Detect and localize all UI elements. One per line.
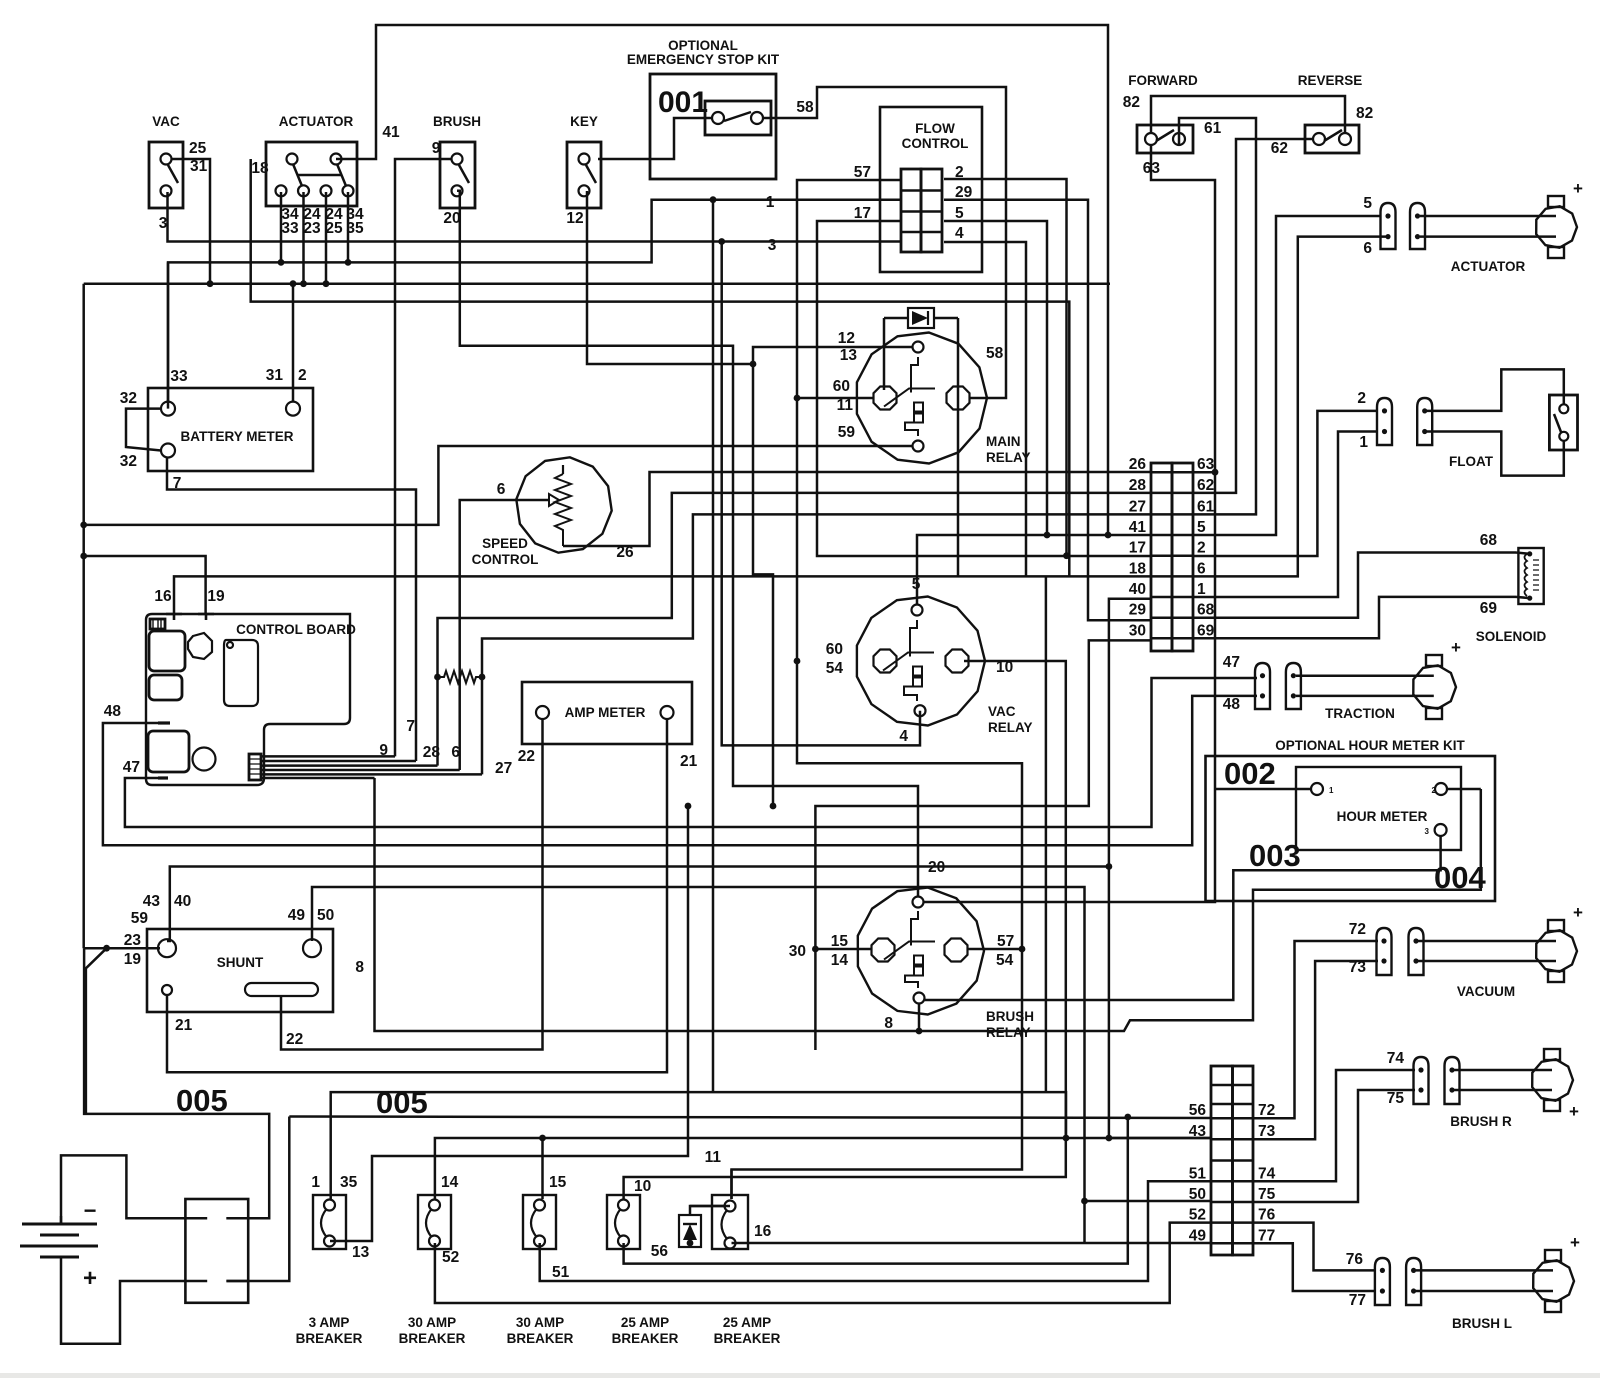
svg-text:2: 2 xyxy=(1197,540,1206,557)
wire battery positive loop xyxy=(61,1258,185,1344)
battery plate short 2 xyxy=(40,1256,79,1259)
svg-text:3 AMP: 3 AMP xyxy=(309,1315,350,1330)
float pin B contact xyxy=(1422,408,1427,413)
actuator pin A contact xyxy=(1385,213,1390,218)
actuator motor xyxy=(1536,206,1577,247)
wire 15-14 brush relay west xyxy=(815,948,872,951)
brush L pin A contact xyxy=(1380,1268,1385,1273)
svg-text:1: 1 xyxy=(1197,581,1206,598)
wire 7 battery meter to ribbon xyxy=(167,457,416,761)
svg-text:20: 20 xyxy=(443,210,460,227)
svg-text:63: 63 xyxy=(1143,160,1161,177)
hour meter kit outer box xyxy=(1206,756,1496,901)
svg-text:FLOAT: FLOAT xyxy=(1449,454,1494,469)
svg-text:69: 69 xyxy=(1480,600,1498,617)
svg-text:57: 57 xyxy=(997,933,1014,950)
wire 41 row west to VAC relay pin 5 xyxy=(917,535,1151,605)
traction motor tabs xyxy=(1426,655,1442,666)
brush relay bottom terminal xyxy=(914,993,925,1004)
switch KEY pin top xyxy=(579,154,590,165)
float switch body xyxy=(1549,395,1577,450)
svg-text:77: 77 xyxy=(1349,1292,1366,1309)
svg-text:VAC: VAC xyxy=(988,704,1016,719)
switch FORWARD pin right xyxy=(1173,133,1185,145)
svg-text:57: 57 xyxy=(854,164,871,181)
main relay diode xyxy=(908,308,934,328)
svg-text:63: 63 xyxy=(1197,456,1215,473)
svg-text:ACTUATOR: ACTUATOR xyxy=(1451,259,1526,274)
svg-text:6: 6 xyxy=(451,744,460,761)
svg-text:25: 25 xyxy=(189,140,207,157)
svg-text:73: 73 xyxy=(1258,1123,1276,1140)
svg-text:47: 47 xyxy=(1223,654,1240,671)
svg-text:+: + xyxy=(1570,1233,1580,1252)
wire 48 control board to traction xyxy=(103,696,1257,845)
svg-text:19: 19 xyxy=(207,588,225,605)
svg-text:82: 82 xyxy=(1123,94,1140,111)
svg-text:RELAY: RELAY xyxy=(988,720,1033,735)
svg-text:10: 10 xyxy=(996,659,1013,676)
ribbon line 4 xyxy=(261,769,460,772)
wire 62 reverse to connector xyxy=(1193,139,1313,493)
svg-text:ACTUATOR: ACTUATOR xyxy=(279,114,354,129)
svg-text:1: 1 xyxy=(1329,786,1334,795)
wire 13 breaker to coil bus xyxy=(330,806,688,1241)
connector J1 cell line 6 xyxy=(1151,575,1193,578)
switch ACTUATOR body xyxy=(266,142,357,206)
svg-text:11: 11 xyxy=(705,1149,722,1166)
svg-text:35: 35 xyxy=(346,220,364,237)
control board cap 3 xyxy=(148,731,189,772)
svg-text:15: 15 xyxy=(549,1174,567,1191)
junction 005 row43 xyxy=(1106,1135,1113,1142)
svg-text:76: 76 xyxy=(1346,1251,1364,1268)
svg-text:52: 52 xyxy=(1189,1207,1206,1224)
emergency stop pin left xyxy=(712,112,724,124)
svg-text:73: 73 xyxy=(1349,959,1367,976)
switch KEY lever xyxy=(586,165,596,183)
svg-text:1: 1 xyxy=(766,194,775,211)
svg-text:+: + xyxy=(1569,1102,1579,1121)
resistor speed limit xyxy=(438,671,483,683)
wire 8 brush relay to ribbon and hour meter xyxy=(375,778,1481,1031)
svg-text:51: 51 xyxy=(552,1264,570,1281)
wire 41 top run from actuator to connector row 41 xyxy=(336,25,1108,535)
breaker 30A-1 element xyxy=(426,1209,432,1237)
svg-text:EMERGENCY STOP KIT: EMERGENCY STOP KIT xyxy=(627,52,780,67)
wire 8 brush relay drop xyxy=(918,1003,921,1031)
svg-text:+: + xyxy=(83,1265,97,1292)
junction flow5 row41 xyxy=(1044,532,1051,539)
wire 4 flow control east xyxy=(944,242,1026,576)
brush R pin B xyxy=(1445,1057,1460,1104)
svg-text:40: 40 xyxy=(1129,581,1146,598)
connector J1 cell line 7 xyxy=(1151,596,1193,599)
wire battery negative fuse right xyxy=(84,948,269,1218)
speed control bottom lead xyxy=(563,545,566,548)
switch FORWARD body xyxy=(1137,125,1193,153)
wire 11 breaker 25A xyxy=(730,1170,733,1200)
wire row 73 to vacuum xyxy=(1253,961,1378,1139)
junction 40-43 shunt xyxy=(1106,863,1113,870)
wire key to emergency stop xyxy=(598,118,712,159)
breaker 25A-2 top terminal xyxy=(725,1201,736,1212)
svg-text:12: 12 xyxy=(566,210,583,227)
traction motor wire 1 xyxy=(1296,674,1434,677)
actuator pin B contact xyxy=(1415,213,1420,218)
control board chip slot xyxy=(150,619,165,629)
junction 63 row xyxy=(1212,469,1219,476)
shunt body xyxy=(147,929,333,1012)
amp meter body xyxy=(522,682,692,744)
wire row 50 stub xyxy=(1085,1200,1212,1203)
wire 5 flow control east xyxy=(944,221,1047,535)
svg-text:8: 8 xyxy=(355,959,364,976)
vacuum pin A xyxy=(1377,928,1392,975)
junction pin2 bus xyxy=(300,280,307,287)
solenoid body xyxy=(1518,548,1543,604)
svg-text:BREAKER: BREAKER xyxy=(714,1331,781,1346)
battery plate long 1 xyxy=(22,1223,97,1226)
diode top lead xyxy=(690,1206,726,1215)
svg-text:RELAY: RELAY xyxy=(986,450,1031,465)
svg-text:58: 58 xyxy=(986,345,1004,362)
wire bus 283 from left rail xyxy=(84,282,1110,285)
control board pin 16 xyxy=(166,614,182,620)
connector J2 cell line 8 xyxy=(1211,1221,1253,1224)
junction 13 xyxy=(750,361,757,368)
svg-text:60: 60 xyxy=(833,378,850,395)
brush L motor xyxy=(1533,1260,1574,1301)
svg-text:30: 30 xyxy=(1129,622,1146,639)
control board ribbon hatch xyxy=(249,759,261,774)
wire 58 emergency stop to main relay xyxy=(763,87,1006,398)
svg-text:25 AMP: 25 AMP xyxy=(621,1315,669,1330)
connector J2 cell line 9 xyxy=(1211,1242,1253,1245)
solenoid terminals xyxy=(1527,551,1532,556)
wire 9 brush switch to ribbon xyxy=(395,159,451,756)
wire 82 forward to reverse xyxy=(1151,96,1345,133)
switch BRUSH body xyxy=(440,142,475,208)
svg-text:30 AMP: 30 AMP xyxy=(516,1315,564,1330)
wire 12-13 key switch to main relay xyxy=(587,191,912,364)
switch ACTUATOR lever bar xyxy=(298,174,342,177)
emergency stop pin right xyxy=(751,112,763,124)
svg-text:MAIN: MAIN xyxy=(986,434,1021,449)
svg-text:BREAKER: BREAKER xyxy=(507,1331,574,1346)
vac relay left terminal xyxy=(874,650,897,673)
diode bottom lead xyxy=(689,1243,692,1247)
svg-text:REVERSE: REVERSE xyxy=(1298,73,1363,88)
wire 3 VAC switch to flow control xyxy=(168,192,901,242)
junction diode 49 xyxy=(687,1240,694,1247)
float pin A contact xyxy=(1382,408,1387,413)
svg-text:2: 2 xyxy=(298,367,307,384)
wire row 2 to float xyxy=(1193,411,1378,556)
switch BRUSH lever xyxy=(459,165,469,183)
svg-text:−: − xyxy=(84,1198,97,1223)
svg-text:RELAY: RELAY xyxy=(986,1025,1031,1040)
vac relay right terminal xyxy=(946,650,969,673)
wire actuator pin4 down xyxy=(347,192,350,262)
actuator motor wire 1 xyxy=(1420,215,1556,218)
svg-text:12: 12 xyxy=(838,330,855,347)
connector J1 left column xyxy=(1151,463,1172,651)
svg-text:5: 5 xyxy=(912,576,921,593)
wire 59 main relay to left rail xyxy=(84,446,912,525)
breaker 3A top lead xyxy=(329,1198,332,1201)
svg-text:27: 27 xyxy=(1129,498,1146,515)
wire battery negative loop xyxy=(61,1155,185,1224)
flow control connector right column xyxy=(921,169,942,252)
svg-text:6: 6 xyxy=(497,481,506,498)
switch REVERSE pin left xyxy=(1313,133,1325,145)
svg-text:14: 14 xyxy=(831,952,849,969)
breaker 30A-2 bottom terminal xyxy=(534,1236,545,1247)
svg-text:5: 5 xyxy=(1363,195,1372,212)
svg-text:62: 62 xyxy=(1197,477,1214,494)
brush L pin A xyxy=(1375,1258,1390,1305)
brush L pin B xyxy=(1406,1258,1421,1305)
svg-text:82: 82 xyxy=(1356,105,1373,122)
svg-text:2: 2 xyxy=(955,164,964,181)
svg-text:BRUSH: BRUSH xyxy=(986,1009,1034,1024)
main relay right terminal xyxy=(947,387,970,410)
svg-text:59: 59 xyxy=(131,910,149,927)
battery plate long 2 xyxy=(20,1245,98,1248)
svg-text:1: 1 xyxy=(1359,434,1368,451)
ribbon line 3 xyxy=(261,764,438,767)
svg-text:BRUSH R: BRUSH R xyxy=(1450,1114,1512,1129)
breaker 3A top terminal xyxy=(324,1200,335,1211)
svg-text:41: 41 xyxy=(1129,519,1147,536)
svg-text:43: 43 xyxy=(143,893,161,910)
brush R motor wire 2 xyxy=(1454,1089,1552,1092)
svg-text:001: 001 xyxy=(658,86,708,119)
svg-text:25: 25 xyxy=(325,220,343,237)
svg-text:19: 19 xyxy=(124,951,142,968)
wire battery negative through fuse xyxy=(185,1217,207,1220)
svg-text:75: 75 xyxy=(1258,1186,1276,1203)
switch ACTUATOR lever right xyxy=(337,164,346,186)
hour meter pin 1 xyxy=(1311,783,1323,795)
wire row 52 to breaker xyxy=(435,1223,1211,1303)
vac relay body xyxy=(857,597,985,726)
main relay contacts xyxy=(911,357,918,393)
junction pin1 bus xyxy=(278,259,285,266)
wire hour meter pin2 lead xyxy=(1447,788,1481,791)
svg-text:50: 50 xyxy=(1189,1186,1206,1203)
switch KEY pin 12 xyxy=(579,185,590,196)
svg-text:35: 35 xyxy=(340,1174,358,1191)
svg-text:74: 74 xyxy=(1258,1165,1276,1182)
svg-text:1: 1 xyxy=(311,1174,320,1191)
junction pin3 bus xyxy=(323,280,330,287)
wire 6 speed control to ribbon xyxy=(460,500,549,770)
wire 60-11 main relay xyxy=(797,397,874,400)
wire 56 breaker riser xyxy=(624,1117,1128,1264)
svg-text:49: 49 xyxy=(288,907,306,924)
switch ACTUATOR pin b1 xyxy=(276,185,287,196)
wire row 63 stub xyxy=(1193,471,1215,474)
connector J2 right column xyxy=(1233,1066,1254,1255)
wire 25-31 VAC to bus xyxy=(172,159,210,284)
connector J1 cell line 9 xyxy=(1151,637,1193,640)
svg-text:30: 30 xyxy=(789,943,806,960)
wire row 51 to breaker xyxy=(540,1181,1211,1281)
svg-text:003: 003 xyxy=(1249,838,1301,873)
svg-text:18: 18 xyxy=(1129,560,1147,577)
wire row 76 to brush L xyxy=(1253,1223,1376,1271)
control board pin48 stub xyxy=(158,721,170,724)
control board ribbon connector xyxy=(249,754,261,780)
svg-text:61: 61 xyxy=(1197,498,1215,515)
control board chip slot hatch xyxy=(153,619,161,629)
wire battery positive to row 56 xyxy=(289,1117,1211,1119)
breaker 25A-2 body xyxy=(712,1195,748,1249)
float wire bottom xyxy=(1427,432,1564,476)
svg-text:58: 58 xyxy=(796,99,814,116)
control board round part xyxy=(193,748,216,771)
breaker 30A-2 body xyxy=(523,1195,556,1249)
vacuum motor tabs xyxy=(1548,920,1564,931)
wire row 72 to vacuum xyxy=(1253,941,1378,1118)
svg-text:54: 54 xyxy=(826,660,844,677)
ribbon line 2 xyxy=(261,760,416,763)
breaker 25A-1 bottom terminal xyxy=(618,1236,629,1247)
flow control cell line 3 xyxy=(901,231,942,234)
brush R motor xyxy=(1532,1059,1573,1100)
wire 49 row to breaker 16 xyxy=(732,1242,1212,1245)
vac relay contacts xyxy=(910,620,917,657)
svg-text:28: 28 xyxy=(1129,477,1147,494)
main relay body xyxy=(857,333,987,464)
wire 43-40 shunt east run xyxy=(167,867,1109,942)
svg-text:32: 32 xyxy=(120,390,137,407)
wire row 74 to brush R xyxy=(1253,1070,1415,1181)
svg-text:FORWARD: FORWARD xyxy=(1128,73,1198,88)
breaker 30A-1 body xyxy=(418,1195,451,1249)
speed control pot xyxy=(562,465,564,474)
wire 28 ribbon to connector xyxy=(438,493,1152,766)
wire battery positive fuse right xyxy=(226,1117,289,1282)
main relay left terminal xyxy=(874,387,897,410)
connector J2 left column xyxy=(1211,1066,1233,1255)
wire 63 forward to hour meter xyxy=(924,145,1215,902)
wire actuator pin1 down xyxy=(280,192,283,262)
actuator pin B xyxy=(1410,203,1425,249)
svg-text:76: 76 xyxy=(1258,1207,1276,1224)
svg-text:OPTIONAL: OPTIONAL xyxy=(668,38,738,53)
fuse block stub neg right xyxy=(226,1217,248,1220)
wire actuator pin3 down xyxy=(325,192,328,284)
float switch pin bottom xyxy=(1559,432,1568,441)
svg-text:SHUNT: SHUNT xyxy=(217,955,264,970)
brush L motor wire 2 xyxy=(1416,1290,1553,1293)
breaker 25A-1 element xyxy=(615,1209,621,1237)
brush relay right terminal xyxy=(945,939,968,962)
svg-text:41: 41 xyxy=(382,124,400,141)
junction 13 breaker riser xyxy=(685,803,692,810)
svg-text:+: + xyxy=(1573,179,1583,198)
svg-text:7: 7 xyxy=(406,718,415,735)
control board cap 1 xyxy=(149,631,185,671)
float switch pin top xyxy=(1559,404,1568,413)
wire 40 connector to row 43 xyxy=(1109,599,1211,1138)
wire 005 breaker to connector row 43 xyxy=(331,1092,1066,1199)
svg-text:20: 20 xyxy=(928,859,945,876)
svg-text:72: 72 xyxy=(1258,1102,1275,1119)
traction pin A contact xyxy=(1260,673,1265,678)
wire 6 actuator motor xyxy=(1193,237,1389,577)
brush relay body xyxy=(858,888,984,1015)
svg-text:CONTROL: CONTROL xyxy=(902,136,969,151)
hour meter body xyxy=(1296,767,1461,850)
svg-text:72: 72 xyxy=(1349,921,1366,938)
control board pin47 stub xyxy=(158,776,168,779)
vacuum motor wire 1 xyxy=(1418,940,1556,943)
wire 23-19 shunt feed xyxy=(84,947,160,950)
brush R pin A xyxy=(1414,1057,1429,1104)
svg-text:4: 4 xyxy=(955,225,964,242)
switch REVERSE lever xyxy=(1324,130,1342,141)
wire 30 connector to brush relay xyxy=(815,640,1151,1050)
shunt pin right xyxy=(303,939,321,957)
switch ACTUATOR pin b4 xyxy=(343,185,354,196)
brush R motor wire 1 xyxy=(1454,1069,1552,1072)
svg-text:TRACTION: TRACTION xyxy=(1325,706,1395,721)
svg-text:2: 2 xyxy=(1432,786,1437,795)
svg-text:31: 31 xyxy=(266,367,284,384)
wire 57 flow control to relays xyxy=(732,180,1023,1199)
breaker 3A element xyxy=(321,1209,327,1237)
svg-text:11: 11 xyxy=(837,397,854,414)
connector J2 cell line 5 xyxy=(1211,1159,1253,1162)
breaker 25A-2 bottom terminal xyxy=(725,1238,736,1249)
switch ACTUATOR lever left xyxy=(293,164,302,186)
svg-text:SPEED: SPEED xyxy=(482,536,528,551)
svg-text:26: 26 xyxy=(1129,456,1147,473)
control board module pin xyxy=(227,642,233,648)
svg-text:49: 49 xyxy=(1189,1227,1207,1244)
svg-text:005: 005 xyxy=(176,1083,228,1118)
flow control connector left column xyxy=(901,169,921,252)
wire 31-2 battery meter to bus xyxy=(292,284,295,402)
svg-text:30 AMP: 30 AMP xyxy=(408,1315,456,1330)
shunt pin left xyxy=(158,939,176,957)
svg-text:KEY: KEY xyxy=(570,114,598,129)
junction 31-2 xyxy=(290,280,297,287)
float switch lever xyxy=(1554,414,1561,432)
wire 47 control board to traction xyxy=(125,678,1257,827)
battery plate short 1 xyxy=(40,1234,79,1237)
svg-text:16: 16 xyxy=(154,588,172,605)
ribbon line 6 xyxy=(261,777,375,780)
svg-text:40: 40 xyxy=(174,893,191,910)
wire 19 control board to left rail xyxy=(84,556,206,614)
battery pos stub xyxy=(60,1257,63,1258)
switch VAC pin 3 xyxy=(161,185,172,196)
switch VAC lever xyxy=(168,165,178,183)
main relay coil left wire xyxy=(883,318,886,390)
svg-text:14: 14 xyxy=(441,1174,459,1191)
svg-text:004: 004 xyxy=(1434,860,1486,895)
wire row 5 to actuator motor xyxy=(1193,216,1381,535)
battery meter pin 4 xyxy=(161,444,175,458)
wire 26 speed control to connector xyxy=(566,472,1151,546)
shunt pin 21 xyxy=(162,985,172,995)
wire left rail xyxy=(82,284,85,949)
